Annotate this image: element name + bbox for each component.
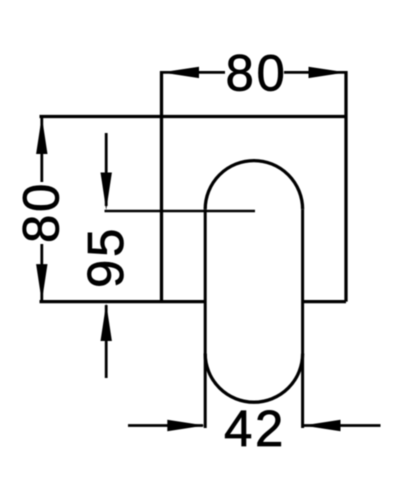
svg-text:80: 80: [226, 45, 288, 102]
svg-text:80: 80: [13, 181, 70, 243]
svg-text:95: 95: [77, 226, 134, 288]
svg-text:42: 42: [224, 400, 286, 457]
